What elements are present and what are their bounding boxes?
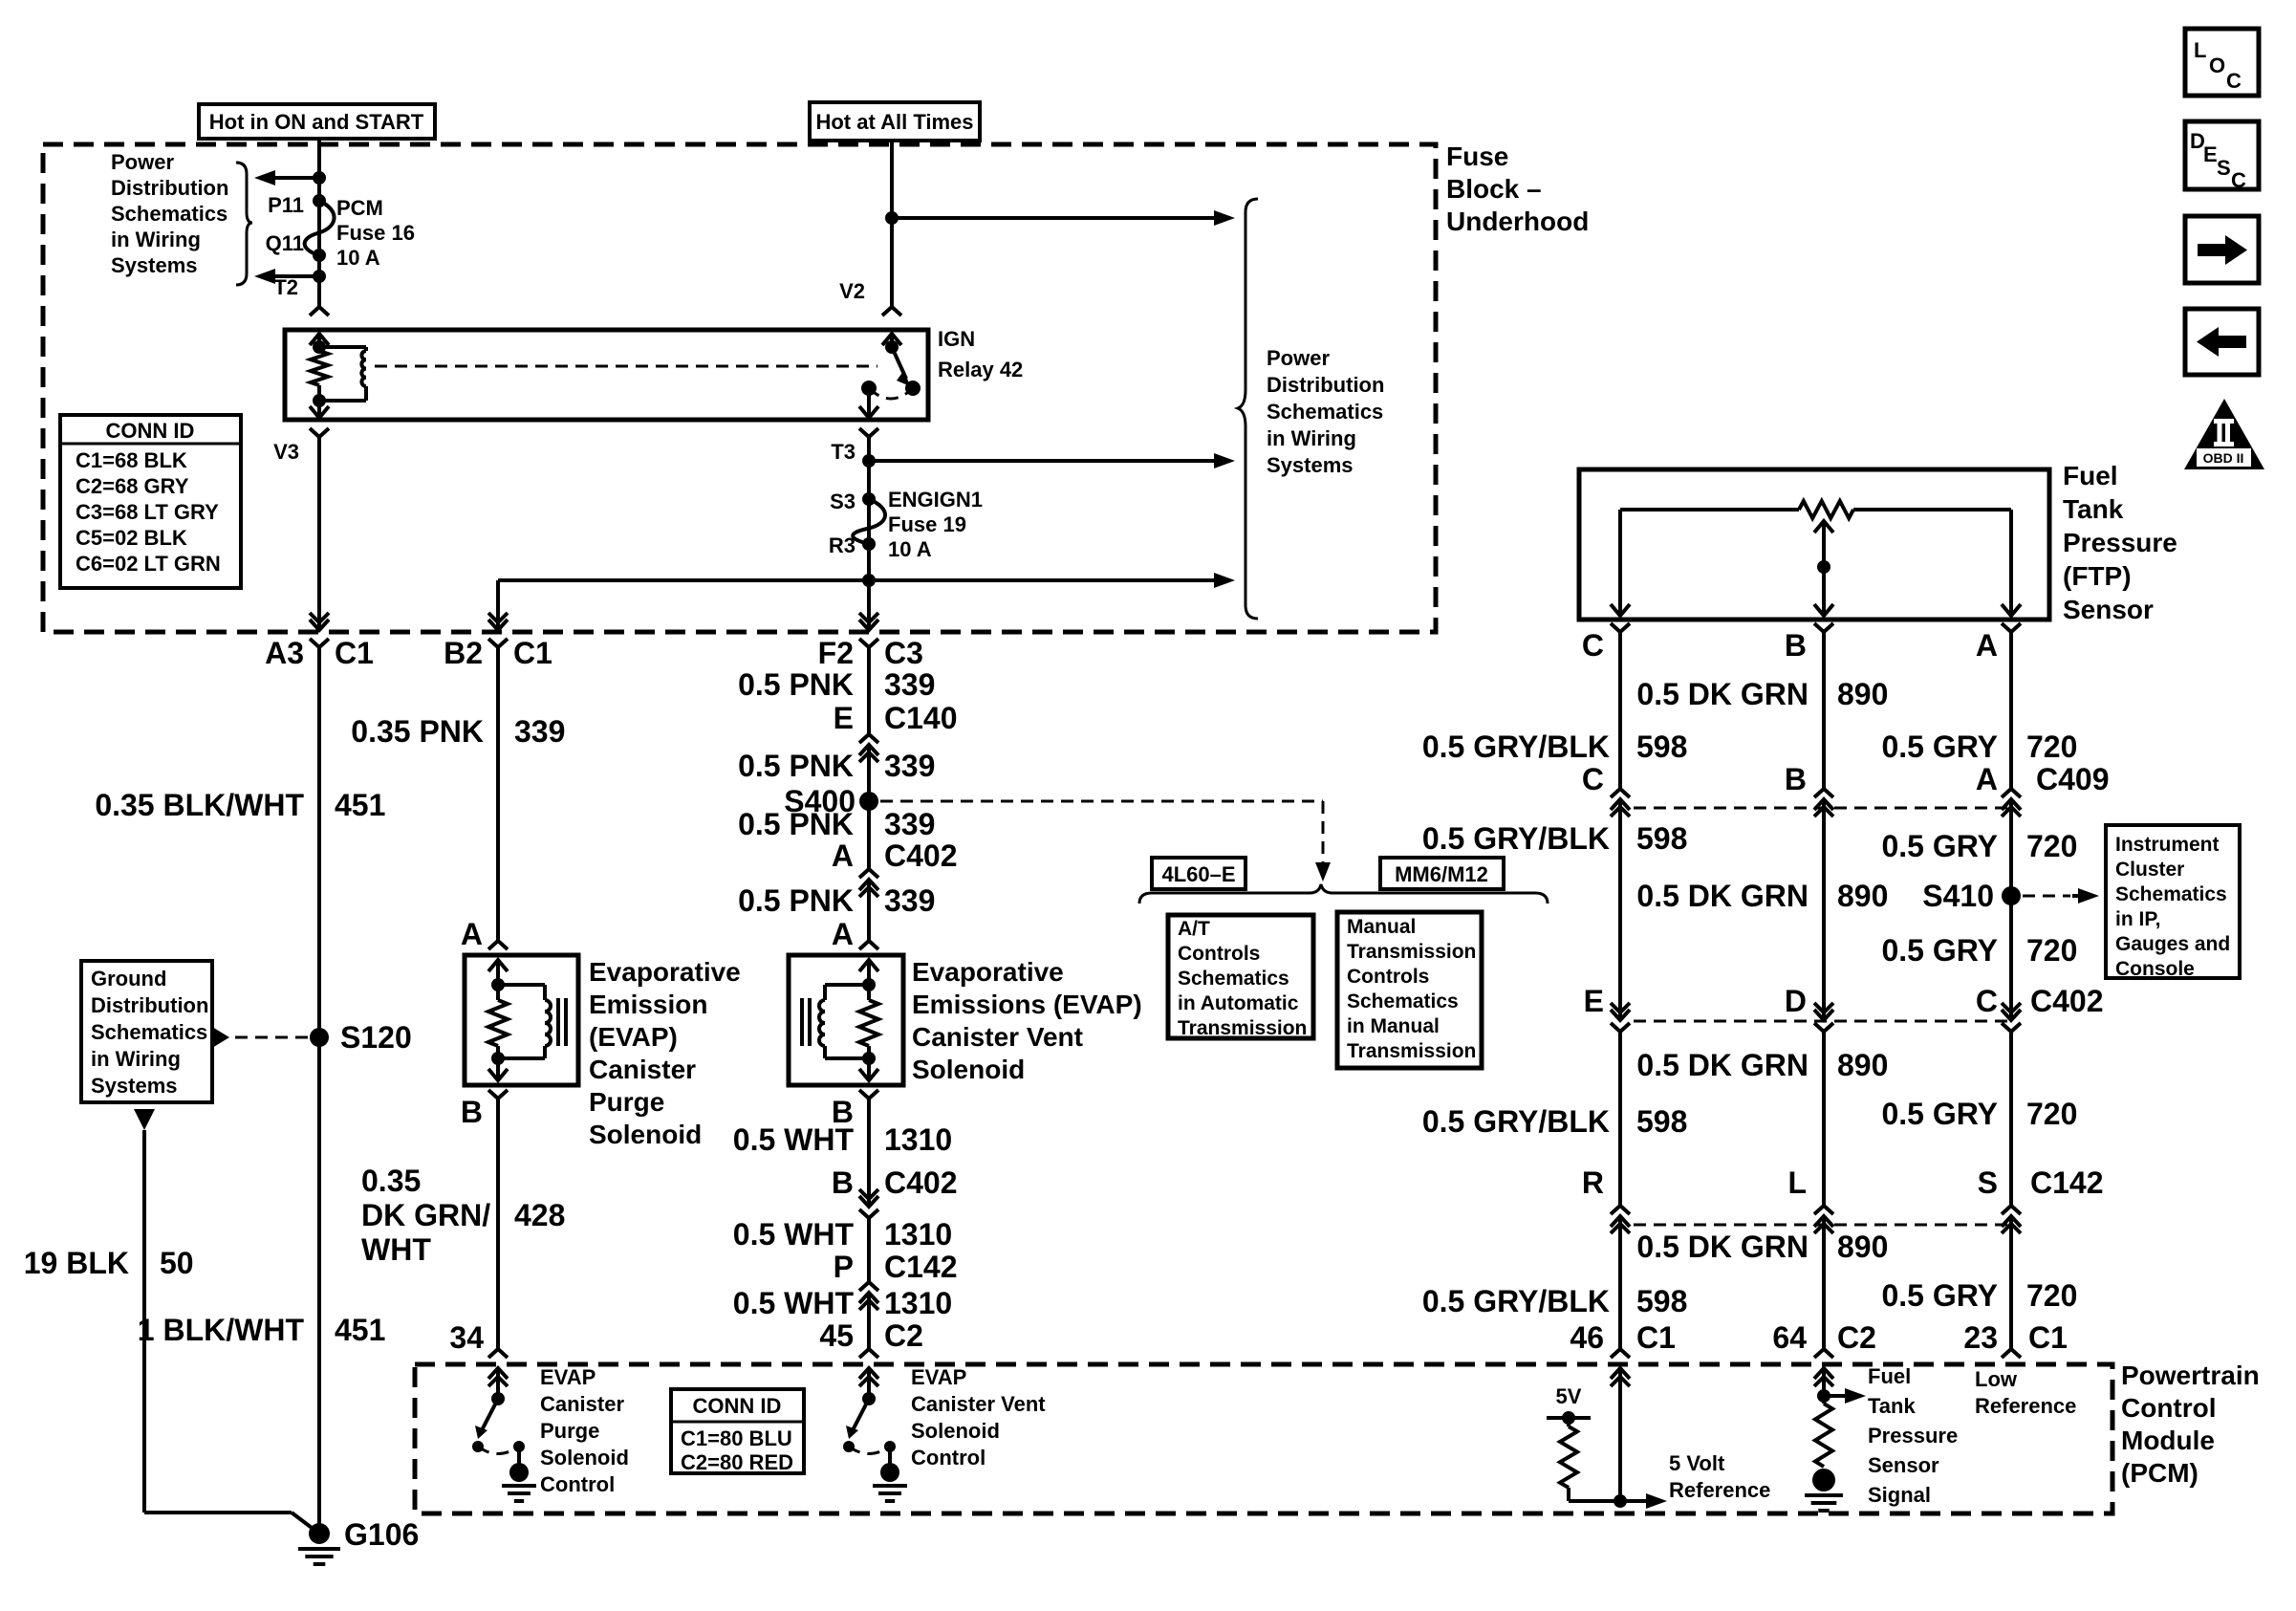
node R3 [862,537,876,551]
relay coil top node [313,340,326,354]
svg-text:Distribution: Distribution [111,176,228,200]
icon DESC [2185,121,2259,192]
wire F2 down to vent solenoid [867,657,871,734]
svg-text:IGN: IGN [938,327,975,351]
svg-text:64: 64 [1772,1320,1807,1355]
wire B FTP to C409 [1822,639,1826,790]
wire C140 to S400 [867,772,871,870]
svg-text:Canister Vent: Canister Vent [912,1022,1083,1052]
svg-text:0.5 PNK: 0.5 PNK [738,807,854,841]
connector A3/C1 at fuse block boundary [310,601,329,666]
wire ground horizontal to G106 [144,1511,292,1514]
svg-text:Purge: Purge [589,1087,664,1117]
svg-text:19 BLK: 19 BLK [24,1246,129,1280]
icon arrow left [2185,309,2259,375]
PCM signal ground dot [1812,1469,1835,1491]
connector C142 dashed line [1634,1224,2011,1227]
label Evaporative Emission (EVAP) Canister Purge Solenoid [589,957,741,1149]
svg-text:Transmission: Transmission [1178,1017,1307,1039]
svg-text:0.5 GRY: 0.5 GRY [1881,1097,1998,1131]
PCM internal pulldown resistor [1815,1404,1832,1467]
svg-text:890: 890 [1837,1230,1888,1264]
svg-text:C142: C142 [2030,1165,2104,1200]
node P11 [313,194,326,207]
svg-text:Solenoid: Solenoid [589,1120,702,1149]
wire A FTP to C409 [2009,639,2013,790]
svg-text:WHT: WHT [361,1232,431,1267]
junction 5 volt reference [1614,1494,1627,1508]
connector C140 [859,716,878,773]
FTP internal resistor [1620,508,1799,512]
fuse PCM Fuse 16 10 A [305,201,335,255]
svg-text:in Wiring: in Wiring [91,1047,181,1071]
wire purge solenoid to PCM pin 34 [496,1105,500,1342]
connector C409 on wire B [1814,771,1833,828]
purge solenoid bottom node [491,1052,505,1065]
svg-text:V3: V3 [273,440,299,464]
wire C402 to C142 [867,1233,871,1277]
wire from Hot at All Times down to relay V2 [890,141,894,304]
svg-text:Evaporative: Evaporative [912,957,1064,987]
connector V3 below relay [310,428,329,446]
wire A C402 to C142 [2009,1047,2013,1207]
junction fuel tank pressure signal [1817,1389,1830,1403]
purge solenoid core hatch [556,998,560,1046]
wire C142 to PCM pin 45 [867,1319,871,1342]
svg-text:720: 720 [2026,933,2077,968]
svg-text:Control: Control [540,1472,615,1496]
relay switch input arrow [882,334,901,347]
svg-text:0.5 GRY/BLK: 0.5 GRY/BLK [1422,1284,1610,1318]
EVAP canister vent solenoid box [789,955,903,1085]
svg-text:C: C [1582,628,1604,663]
svg-text:598: 598 [1636,729,1687,764]
connector C409 on wire C [1611,771,1630,828]
svg-text:D: D [1785,984,1807,1018]
svg-text:B: B [1785,628,1807,663]
svg-text:Canister: Canister [540,1392,624,1416]
svg-text:(FTP): (FTP) [2063,561,2132,591]
svg-text:E: E [834,701,854,735]
svg-text:E: E [2203,142,2218,166]
FTP internal right leg [2009,510,2013,604]
svg-text:598: 598 [1636,821,1687,856]
svg-text:Power: Power [1267,346,1330,370]
svg-text:Distribution: Distribution [1267,373,1384,397]
svg-text:339: 339 [884,807,935,841]
svg-text:0.5 PNK: 0.5 PNK [738,749,854,783]
svg-text:Distribution: Distribution [91,993,208,1017]
svg-text:339: 339 [884,883,935,918]
connector A below FTP [2002,623,2021,641]
svg-text:5 Volt: 5 Volt [1669,1451,1725,1475]
vent solenoid top node [862,978,876,991]
svg-text:Block –: Block – [1446,174,1542,204]
FTP internal left leg [1618,510,1622,604]
connector C below FTP [1611,623,1630,641]
label Low Reference [1975,1367,2076,1418]
svg-text:Tank: Tank [1868,1394,1916,1418]
connector C142 on wire B [1814,1187,1833,1245]
wire S120 down to G106 [317,1037,321,1534]
connector C402 vent [859,851,878,908]
svg-text:Relay 42: Relay 42 [938,358,1023,381]
svg-text:A: A [1976,762,1998,796]
svg-text:0.5 GRY: 0.5 GRY [1881,829,1998,863]
svg-text:0.35 PNK: 0.35 PNK [351,714,484,749]
svg-text:0.35: 0.35 [361,1164,421,1198]
text Power Distribution Schematics in Wiring Systems (right) [1267,346,1384,477]
svg-text:T3: T3 [831,440,856,464]
svg-text:S120: S120 [340,1020,412,1055]
svg-text:C1: C1 [513,636,552,670]
connector B2/C1 at fuse block boundary [488,601,508,666]
vent driver switch arm [853,1399,869,1430]
connector C409 dashed line [1634,807,2011,810]
svg-text:B: B [1785,762,1807,796]
PCM connector pin 23 [2002,1340,2021,1358]
junction dot P11 branch [313,171,326,185]
PCM connector pin 64 [1814,1334,1833,1398]
svg-text:46: 46 [1570,1320,1604,1355]
wire from Hot in ON and START down to relay T2 [317,139,321,304]
svg-text:0.5 PNK: 0.5 PNK [738,883,854,918]
5V supply bar [1547,1416,1591,1420]
svg-text:C1: C1 [1636,1320,1676,1355]
purge solenoid coil [498,983,545,987]
Powertrain Control Module dashed box [415,1364,2112,1513]
svg-text:C: C [2231,168,2246,192]
svg-text:451: 451 [335,788,385,822]
connector C402 on wire B [1814,991,1833,1051]
wire B C402 to C142 [1822,1047,1826,1207]
svg-text:C1: C1 [335,636,374,670]
svg-text:P: P [834,1250,854,1284]
svg-text:C2: C2 [1837,1320,1876,1355]
svg-text:Sensor: Sensor [1868,1453,1939,1477]
vent driver pivot [862,1392,876,1405]
svg-text:L: L [1787,1165,1807,1200]
wire C402 to vent solenoid [867,906,871,934]
svg-text:Pressure: Pressure [1868,1424,1958,1448]
svg-text:0.5 WHT: 0.5 WHT [733,1286,855,1320]
svg-text:C142: C142 [884,1250,958,1284]
svg-text:10 A: 10 A [336,246,380,270]
svg-text:Schematics: Schematics [91,1020,207,1044]
svg-text:598: 598 [1636,1104,1687,1139]
svg-text:Fuel: Fuel [2063,461,2118,490]
PCM signal ground [1805,1495,1843,1511]
svg-text:L: L [2194,38,2206,62]
svg-text:in IP,: in IP, [2115,908,2160,930]
wire junction to B2 drop [498,578,869,582]
wire feed to power distribution (middle right arrow) [869,459,1212,463]
svg-text:C3=68 LT GRY: C3=68 LT GRY [76,500,219,524]
ground box arrow to S120 [212,1027,229,1048]
svg-text:Fuse 19: Fuse 19 [888,512,966,536]
svg-text:in Manual: in Manual [1347,1015,1440,1037]
svg-text:Systems: Systems [1267,453,1354,477]
fuse block underhood dashed box [43,144,1436,632]
label box MM6/M12 [1380,858,1504,889]
svg-text:T2: T2 [273,275,298,299]
arrow to power distribution schematics (lower left) [254,269,319,284]
purge driver output contact [513,1441,525,1452]
wire B inside PCM [1822,1382,1826,1404]
svg-text:C402: C402 [884,1165,958,1200]
wire V3 down to fuse block edge [317,446,321,612]
wire A C409 to C402 [2009,826,2013,994]
svg-text:0.5 GRY/BLK: 0.5 GRY/BLK [1422,821,1610,856]
svg-text:Ground: Ground [91,967,166,991]
vent driver contact [843,1441,855,1452]
svg-text:C: C [2226,69,2242,93]
purge driver travel arc [478,1447,519,1454]
svg-text:Reference: Reference [1669,1478,1770,1502]
svg-text:A3: A3 [265,636,304,670]
svg-text:10 A: 10 A [888,537,932,561]
svg-text:Controls: Controls [1178,943,1260,965]
EVAP canister purge solenoid box [465,955,578,1085]
svg-text:Q11: Q11 [266,231,304,255]
5V resistor leg to wire C [1569,1499,1620,1503]
svg-text:R3: R3 [829,533,856,557]
svg-text:Systems: Systems [91,1074,178,1098]
svg-text:B: B [461,1095,483,1129]
wire T3 down [867,446,871,580]
relay label IGN Relay 42 [938,327,1023,381]
svg-text:C1: C1 [2028,1320,2068,1355]
svg-text:MM6/M12: MM6/M12 [1395,862,1488,886]
svg-text:23: 23 [1963,1320,1998,1355]
vent solenoid winding resistor [867,985,871,1000]
purge driver switch arm [482,1399,498,1430]
svg-text:0.5 GRY: 0.5 GRY [1881,1278,1998,1313]
svg-text:S410: S410 [1922,879,1994,913]
wire B C409 to C402 [1822,826,1826,994]
PCM connector pin 45 [859,1334,878,1398]
label EVAP Canister Purge Solenoid Control [540,1365,629,1496]
connector B vent [859,1090,878,1107]
splice S120 [310,1028,329,1047]
svg-text:428: 428 [514,1198,565,1232]
relay switch pivot [885,340,899,354]
svg-text:C402: C402 [2030,984,2104,1018]
svg-text:A: A [832,838,854,873]
svg-text:1310: 1310 [884,1217,952,1252]
svg-text:598: 598 [1636,1284,1687,1318]
svg-text:Sensor: Sensor [2063,595,2154,624]
label Evaporative Emissions (EVAP) Canister Vent Solenoid [912,957,1142,1084]
label EVAP Canister Vent Solenoid Control [911,1365,1046,1469]
junction dot T2 branch [313,270,326,283]
connector B below FTP [1814,623,1833,641]
relay switch travel dashed arc [869,388,913,399]
svg-text:A: A [1976,628,1998,663]
connector B purge [488,1090,508,1107]
relay coil output arrow to V3 [310,403,329,418]
svg-text:1310: 1310 [884,1286,952,1320]
svg-text:C140: C140 [884,701,958,735]
wire 45 inside PCM [867,1382,871,1399]
connector C402 on wire A [2002,991,2021,1051]
svg-text:1 BLK/WHT: 1 BLK/WHT [138,1313,305,1347]
svg-text:0.5 PNK: 0.5 PNK [738,667,854,702]
connector T2 into relay [310,298,329,316]
svg-text:ENGIGN1: ENGIGN1 [888,488,983,512]
svg-text:0.5 GRY: 0.5 GRY [1881,933,1998,968]
svg-text:Solenoid: Solenoid [540,1446,629,1469]
label 0.35 DK GRN/ WHT 428 [361,1164,490,1267]
svg-text:C409: C409 [2036,762,2110,796]
svg-text:Underhood: Underhood [1446,207,1589,236]
icon OBD II triangle [2184,399,2264,469]
svg-text:0.5 GRY/BLK: 0.5 GRY/BLK [1422,729,1610,764]
svg-text:S: S [2217,156,2231,180]
S400 dashed branch [880,800,1323,803]
PCM connector pin 46 [1611,1334,1630,1398]
svg-text:B2: B2 [444,636,483,670]
junction dot fuse block feed [885,211,899,225]
svg-text:1310: 1310 [884,1122,952,1157]
svg-text:C: C [1976,984,1998,1018]
svg-text:45: 45 [819,1318,854,1353]
svg-text:Instrument: Instrument [2115,834,2220,856]
A/T Controls box [1168,915,1313,1039]
label box Hot at All Times [810,102,980,141]
svg-text:OBD II: OBD II [2203,450,2244,466]
svg-text:A: A [461,917,483,951]
relay coil (inductor) [319,345,366,349]
wire ground box down [142,1130,146,1513]
svg-text:C3: C3 [884,636,923,670]
wire C inside PCM [1618,1382,1622,1501]
svg-text:CONN ID: CONN ID [693,1394,782,1418]
svg-text:Module: Module [2121,1426,2215,1455]
purge solenoid input arrow [488,960,508,975]
svg-text:C1=80 BLU: C1=80 BLU [681,1426,792,1450]
svg-text:Fuel: Fuel [1868,1364,1911,1388]
svg-text:Solenoid: Solenoid [912,1055,1025,1084]
label 5 Volt Reference [1669,1451,1770,1502]
svg-text:50: 50 [160,1246,194,1280]
relay switch closed contact [861,381,877,396]
svg-text:Control: Control [2121,1393,2217,1423]
relay switch arm [892,347,906,379]
svg-text:Transmission: Transmission [1347,1040,1476,1062]
connector C402 dashed line [1634,1020,2011,1023]
purge driver ground dot [509,1463,529,1482]
svg-text:720: 720 [2026,1097,2077,1131]
svg-text:Solenoid: Solenoid [911,1419,1000,1443]
wire B2 fuse block to purge solenoid [496,657,500,934]
relay switch output arrow to T3 [867,394,871,406]
svg-text:720: 720 [2026,1278,2077,1313]
svg-text:Schematics: Schematics [1267,400,1383,424]
connector V2 into relay [882,298,901,316]
Instrument Cluster box [2106,825,2240,980]
text Power Distribution Schematics in Wiring Systems (left) [111,150,228,277]
svg-text:34: 34 [449,1320,484,1355]
svg-text:C402: C402 [884,838,958,873]
svg-text:Fuse: Fuse [1446,142,1508,171]
connector F2/C3 at fuse block boundary [859,601,878,666]
label box 4L60-E [1152,858,1245,889]
connector A vent [859,932,878,949]
svg-text:EVAP: EVAP [540,1365,596,1389]
connector A purge [488,932,508,949]
svg-text:V2: V2 [839,279,865,303]
svg-text:Pressure: Pressure [2063,528,2177,557]
svg-text:(EVAP): (EVAP) [589,1022,678,1052]
connector C402 on wire C [1611,991,1630,1051]
svg-text:Controls: Controls [1347,966,1429,988]
svg-text:in Wiring: in Wiring [111,228,201,251]
junction dot T3 branch [862,454,876,468]
svg-text:Purge: Purge [540,1419,599,1443]
svg-text:720: 720 [2026,829,2077,863]
vent solenoid output arrow [867,1058,871,1067]
brace power distribution left [236,163,252,285]
label box Hot in ON and START [199,104,435,139]
svg-text:0.5 DK GRN: 0.5 DK GRN [1636,1048,1809,1082]
purge solenoid output arrow [496,1058,500,1067]
node S3 [862,492,876,506]
connector C409 on wire A [2002,771,2021,828]
CONN ID table (PCM) [671,1389,804,1474]
vent driver ground dot [880,1463,899,1482]
ground G106 [309,1523,330,1544]
PCM title [2121,1361,2260,1488]
svg-text:Systems: Systems [111,253,198,277]
svg-text:Transmission: Transmission [1347,941,1476,963]
vent solenoid bottom node [862,1052,876,1065]
svg-text:0.5 WHT: 0.5 WHT [733,1217,855,1252]
svg-text:F2: F2 [818,636,854,670]
svg-text:Fuse 16: Fuse 16 [336,221,415,245]
wire C FTP to C409 [1618,639,1622,790]
svg-text:Canister: Canister [589,1055,696,1084]
vent solenoid input arrow [859,960,878,975]
svg-text:Emissions (EVAP): Emissions (EVAP) [912,990,1142,1019]
vent driver ground [873,1486,907,1501]
svg-text:4L60–E: 4L60–E [1161,862,1235,886]
wire B C142 to PCM [1822,1243,1826,1342]
svg-text:C2=80 RED: C2=80 RED [681,1450,793,1474]
svg-text:339: 339 [884,749,935,783]
svg-text:0.5 DK GRN: 0.5 DK GRN [1636,1230,1809,1264]
relay coil input arrow [310,334,329,347]
relay IGN Relay 42 box [285,330,928,420]
svg-text:Signal: Signal [1868,1483,1931,1507]
svg-text:Schematics: Schematics [2115,883,2227,905]
fuse ENGIGN1 Fuse 19 10 A [853,499,885,544]
arrow 5 volt reference [1621,1493,1667,1509]
wire 34 inside PCM [496,1382,500,1399]
5V pullup resistor [1567,1418,1570,1426]
icon LOC [2185,29,2259,96]
label Fuse Block - Underhood [1446,142,1589,236]
FTP wiper node [1817,560,1830,574]
svg-text:0.5 WHT: 0.5 WHT [733,1122,855,1157]
FTP wiper output [1822,567,1826,604]
svg-text:R: R [1582,1165,1604,1200]
svg-text:O: O [2209,54,2225,77]
wire B2 down to fuse block edge [496,580,500,612]
node Q11 [313,249,326,262]
svg-text:in Wiring: in Wiring [1267,426,1356,450]
svg-text:Schematics: Schematics [1347,991,1459,1012]
